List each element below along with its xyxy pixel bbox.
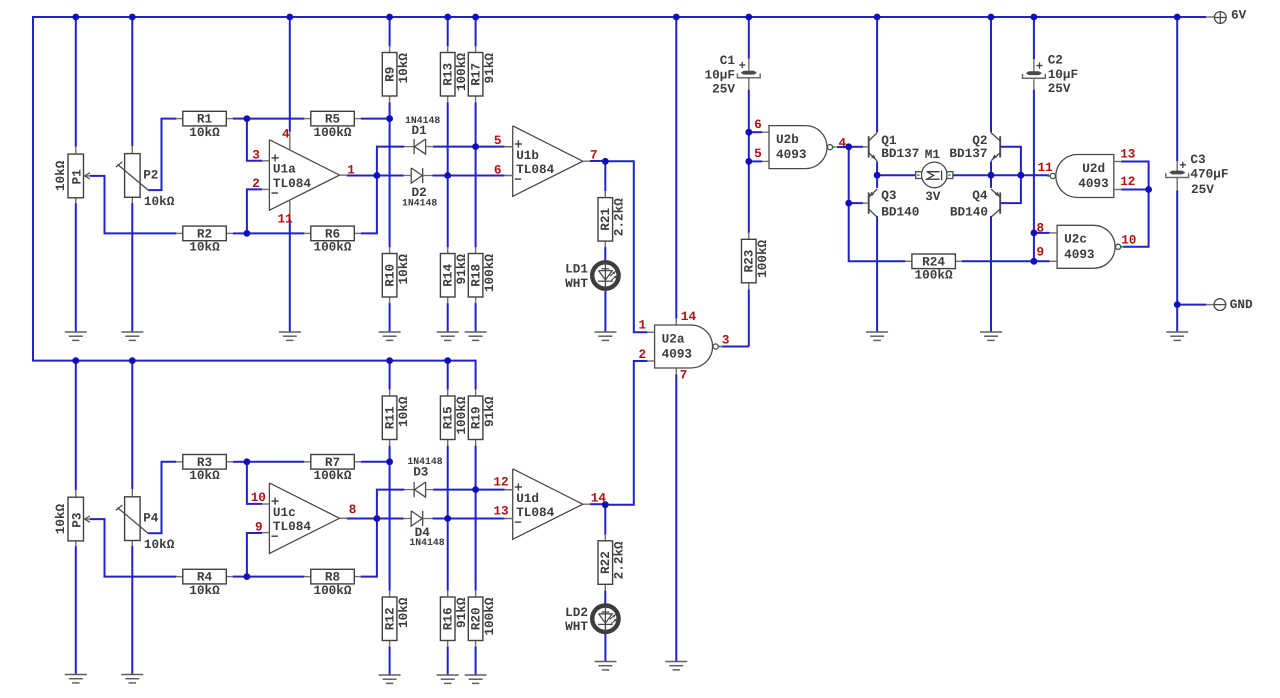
wire P3 wiper to R4 bbox=[90, 519, 176, 577]
wire P3 bottom bbox=[75, 546, 77, 674]
svg-text:10kΩ: 10kΩ bbox=[144, 194, 175, 209]
resistor R14 bbox=[447, 247, 449, 254]
svg-text:91kΩ: 91kΩ bbox=[454, 254, 469, 285]
resistor R19 bbox=[475, 390, 477, 397]
transistor Q1 BD137 bbox=[868, 136, 870, 157]
ground R10 bbox=[379, 331, 401, 333]
wire R16 to ground bbox=[447, 647, 449, 675]
U2a pin1 stub bbox=[647, 331, 654, 333]
wire pin6 stub bbox=[749, 131, 762, 133]
junction base tie right bbox=[1018, 172, 1025, 179]
wire R14 to ground bbox=[447, 303, 449, 332]
svg-text:U1d: U1d bbox=[516, 491, 539, 506]
wire R21 to LD1 bbox=[604, 247, 606, 261]
resistor R10 bbox=[389, 247, 391, 254]
junction pin12/R19 line bbox=[472, 486, 479, 493]
node D junction bbox=[244, 458, 251, 465]
op-amp U1d bbox=[513, 469, 583, 540]
svg-text:25V: 25V bbox=[1048, 81, 1071, 96]
svg-text:2.2kΩ: 2.2kΩ bbox=[612, 541, 627, 579]
transistor Q4 BD140 bbox=[999, 192, 1001, 213]
svg-text:BD137: BD137 bbox=[949, 146, 987, 161]
wire down to R24 bbox=[849, 203, 906, 261]
U2c pin8 stub bbox=[1034, 232, 1050, 234]
wire motor node to Q3 emitter bbox=[876, 175, 878, 188]
junction U1b out bbox=[602, 158, 609, 165]
wire D2 to pin6 node bbox=[432, 175, 447, 177]
wire pin6 into U1b bbox=[448, 175, 505, 177]
wire Q4 base elbow bbox=[1001, 175, 1021, 203]
diode D4 1N4148 bbox=[404, 518, 412, 520]
wire R10 to ground bbox=[389, 303, 391, 332]
wire +6V top rail bbox=[33, 16, 1206, 18]
svg-text:P2: P2 bbox=[143, 167, 158, 182]
wire D1 to pin5 node bbox=[433, 146, 475, 148]
svg-text:91kΩ: 91kΩ bbox=[454, 597, 469, 628]
junction R5/R9 bbox=[386, 115, 393, 122]
svg-text:TL084: TL084 bbox=[516, 162, 554, 177]
svg-text:25V: 25V bbox=[712, 82, 735, 97]
svg-text:LD1: LD1 bbox=[565, 262, 588, 277]
potentiometer P4 bbox=[131, 361, 133, 490]
resistor R13 bbox=[447, 46, 449, 53]
wire base tie vertical bbox=[848, 147, 850, 203]
wire R7 to R11 line bbox=[361, 461, 390, 463]
resistor R16 bbox=[447, 591, 449, 598]
junction pin6/R13 line bbox=[444, 172, 451, 179]
wire Q1 base bbox=[849, 146, 863, 148]
svg-text:D1: D1 bbox=[412, 123, 428, 138]
svg-text:100kΩ: 100kΩ bbox=[313, 583, 351, 598]
resistor R4 bbox=[176, 576, 183, 578]
svg-text:5: 5 bbox=[494, 133, 502, 148]
junction U2b pin6 bbox=[745, 129, 752, 136]
svg-text:LD2: LD2 bbox=[565, 605, 588, 620]
NAND gate U2b 4093 bbox=[769, 126, 827, 169]
junction rail U2a pin14 bbox=[673, 14, 680, 21]
LED LD1 bbox=[592, 262, 618, 288]
wire node E up to pin9 bbox=[247, 533, 262, 577]
ground Q4 bbox=[980, 331, 1002, 333]
U2d pin12 stub and wire bbox=[1114, 189, 1122, 191]
junction lower rail R11 bbox=[386, 357, 393, 364]
wire U1a output to node C bbox=[347, 175, 377, 177]
svg-text:WHT: WHT bbox=[565, 276, 588, 291]
svg-text:10kΩ: 10kΩ bbox=[53, 160, 68, 191]
wire P4 bottom bbox=[131, 546, 133, 675]
wire Q4 emitter from motor node bbox=[990, 175, 992, 188]
wire node A down to pin3 bbox=[247, 119, 262, 161]
wire C2 down to U2c bbox=[1033, 90, 1035, 262]
junction Q3 base bbox=[845, 200, 852, 207]
svg-text:4: 4 bbox=[282, 127, 290, 142]
svg-text:2.2kΩ: 2.2kΩ bbox=[612, 198, 627, 236]
ground R14 bbox=[437, 331, 459, 333]
svg-text:100kΩ: 100kΩ bbox=[454, 53, 469, 91]
svg-text:C1: C1 bbox=[720, 53, 736, 68]
diode D1 1N4148 bbox=[404, 146, 414, 148]
pin 4 power stub U1a bbox=[289, 17, 291, 132]
resistor R21 bbox=[604, 161, 606, 191]
wire C1 to U2b inputs bbox=[748, 90, 750, 162]
junction rail R9 bbox=[386, 14, 393, 21]
junction rail R13 bbox=[444, 14, 451, 21]
svg-text:1N4148: 1N4148 bbox=[402, 198, 437, 209]
wire U1b out to U2a pin1 bbox=[605, 161, 647, 332]
svg-text:C3: C3 bbox=[1190, 152, 1205, 167]
wire R1 to node A bbox=[233, 118, 247, 120]
ground Q3 bbox=[866, 331, 888, 333]
wire R18 to ground bbox=[475, 303, 477, 332]
ground U2a pin7 bbox=[665, 661, 687, 663]
svg-text:9: 9 bbox=[255, 519, 263, 534]
svg-text:BD140: BD140 bbox=[881, 204, 919, 219]
svg-text:6: 6 bbox=[754, 117, 762, 132]
resistor R1 bbox=[176, 118, 183, 120]
ground R18 bbox=[465, 331, 487, 333]
wire Q1 collector from rail bbox=[876, 17, 878, 132]
svg-text:25V: 25V bbox=[1191, 182, 1214, 197]
svg-text:6V: 6V bbox=[1231, 7, 1247, 22]
resistor R8 bbox=[304, 576, 311, 578]
junction lower rail P3 bbox=[72, 357, 79, 364]
U2a pin7 stub to ground bbox=[675, 368, 677, 375]
wire U2a output to R23 bbox=[722, 346, 749, 348]
wire node E to R8 bbox=[247, 576, 304, 578]
svg-text:11: 11 bbox=[278, 212, 294, 227]
ground C3 bbox=[1166, 331, 1188, 333]
svg-text:10kΩ: 10kΩ bbox=[189, 240, 220, 255]
wire R24 to C2/U2c node bbox=[962, 260, 1034, 262]
wire R9-R10 bbox=[389, 103, 391, 248]
node E junction bbox=[244, 573, 251, 580]
svg-text:WHT: WHT bbox=[565, 619, 588, 634]
wire Q3 base bbox=[849, 202, 863, 204]
wire node D to R7 bbox=[247, 461, 304, 463]
resistor R11 bbox=[389, 390, 391, 397]
resistor R5 bbox=[304, 118, 311, 120]
svg-text:4093: 4093 bbox=[776, 147, 806, 162]
svg-text:BD137: BD137 bbox=[881, 146, 919, 161]
svg-text:14: 14 bbox=[681, 309, 697, 324]
resistor R12 bbox=[389, 591, 391, 598]
junction U2d pin12 node bbox=[1145, 186, 1152, 193]
potentiometer P3 bbox=[75, 361, 77, 490]
svg-text:6: 6 bbox=[494, 163, 502, 178]
svg-text:3V: 3V bbox=[925, 189, 941, 204]
svg-text:100kΩ: 100kΩ bbox=[313, 240, 351, 255]
diode D2 1N4148 bbox=[404, 175, 412, 177]
NAND gate U2d 4093 mirrored bbox=[1056, 155, 1114, 198]
svg-text:11: 11 bbox=[1038, 160, 1054, 175]
svg-text:2: 2 bbox=[639, 347, 647, 362]
wire motor node to U2d out bbox=[991, 174, 1049, 176]
junction R7/R11 bbox=[386, 458, 393, 465]
wire pin5 stub bbox=[749, 160, 762, 162]
ground LD2 bbox=[594, 661, 616, 663]
ground P1 bbox=[65, 331, 87, 333]
junction rail C2 bbox=[1031, 14, 1038, 21]
junction rail Q2 bbox=[988, 14, 995, 21]
junction U2b out / Q1 base bbox=[845, 143, 852, 150]
svg-text:10kΩ: 10kΩ bbox=[144, 537, 175, 552]
junction lower rail R15 bbox=[444, 357, 451, 364]
ground flag GND bbox=[1177, 304, 1206, 306]
ground R16 bbox=[437, 674, 459, 676]
ground U1a pin11 bbox=[279, 331, 301, 333]
resistor R20 bbox=[475, 591, 477, 598]
wire C3 to GND node bbox=[1176, 190, 1178, 304]
svg-text:Q3: Q3 bbox=[881, 188, 896, 203]
wire Q2 emitter to motor node bbox=[990, 161, 992, 175]
wire R12 to ground bbox=[389, 647, 391, 675]
svg-text:TL084: TL084 bbox=[516, 505, 554, 520]
wire pin12 into U1d bbox=[476, 489, 505, 491]
junction motor right bbox=[988, 172, 995, 179]
svg-text:D3: D3 bbox=[413, 465, 428, 480]
wire U2b output to Q1 base node bbox=[837, 146, 849, 148]
svg-text:10kΩ: 10kΩ bbox=[53, 503, 68, 534]
wire D3 to pin12 node bbox=[433, 489, 475, 491]
svg-text:10: 10 bbox=[1121, 232, 1136, 247]
wire D4 to pin13 node bbox=[432, 518, 447, 520]
node B junction bbox=[244, 230, 251, 237]
NAND gate U2c 4093 bbox=[1057, 225, 1115, 268]
pin 11 power stub U1a bbox=[289, 200, 291, 219]
wire lower rail bbox=[32, 360, 476, 362]
wire motor right bbox=[953, 174, 990, 176]
svg-text:1N4148: 1N4148 bbox=[409, 537, 444, 548]
junction rail U1a pin4 bbox=[286, 14, 293, 21]
wire R5 to R9 line bbox=[361, 118, 390, 120]
resistor R18 bbox=[475, 247, 477, 254]
capacitor C3 470uF bbox=[1176, 17, 1178, 161]
node C junction 4-way bbox=[374, 172, 381, 179]
capacitor C2 10uF bbox=[1033, 17, 1035, 59]
svg-text:470µF: 470µF bbox=[1190, 166, 1228, 181]
svg-text:10kΩ: 10kΩ bbox=[396, 53, 411, 84]
potentiometer P1 bbox=[75, 17, 77, 147]
svg-text:U1a: U1a bbox=[273, 162, 296, 177]
wire P1 bottom bbox=[75, 203, 77, 332]
resistor R7 bbox=[304, 461, 311, 463]
wire node A to R5 bbox=[247, 118, 304, 120]
wire R20 to ground bbox=[475, 647, 477, 675]
transistor Q2 BD137 bbox=[999, 136, 1001, 157]
wire R6 feedback to pin6 node bbox=[361, 176, 377, 234]
wire R2 to node B bbox=[233, 232, 247, 234]
potentiometer P2 bbox=[131, 17, 133, 146]
wire R8 feedback to pin13 node bbox=[361, 519, 377, 577]
wire C3 to ground bbox=[1176, 305, 1178, 332]
wire Q4 collector to ground bbox=[990, 216, 992, 332]
wire LD2 to ground bbox=[604, 634, 606, 662]
capacitor C1 10uF bbox=[748, 17, 750, 59]
ground R20 bbox=[465, 674, 487, 676]
wire node C to D2 bbox=[377, 175, 404, 177]
wire P2 rheostat to R1 bbox=[148, 119, 176, 191]
svg-text:10µF: 10µF bbox=[705, 67, 735, 82]
junction pin13/R15 line bbox=[444, 515, 451, 522]
svg-text:100kΩ: 100kΩ bbox=[482, 254, 497, 292]
junction rail R17 bbox=[472, 14, 479, 21]
power flag 6V bbox=[1206, 16, 1214, 18]
junction rail C1 bbox=[745, 14, 752, 21]
svg-text:12: 12 bbox=[1120, 174, 1135, 189]
junction U2b pin5 bbox=[745, 158, 752, 165]
wire R15-R16 bbox=[447, 446, 449, 591]
junction lower rail P4 bbox=[129, 357, 136, 364]
junction pin5/R17 line bbox=[472, 143, 479, 150]
motor M1 3V bbox=[877, 174, 916, 176]
wire U2a pin2 to U1d output bbox=[605, 361, 647, 505]
svg-text:100kΩ: 100kΩ bbox=[313, 468, 351, 483]
svg-text:4093: 4093 bbox=[662, 347, 692, 362]
svg-text:100kΩ: 100kΩ bbox=[313, 125, 351, 140]
wire pin5 into U1b bbox=[476, 146, 505, 148]
svg-text:10kΩ: 10kΩ bbox=[189, 468, 220, 483]
svg-text:3: 3 bbox=[722, 332, 730, 347]
wire R17-R18 bbox=[475, 103, 477, 248]
node F junction 4-way bbox=[374, 515, 381, 522]
ground LD1 bbox=[594, 331, 616, 333]
wire node F to D4 bbox=[377, 518, 404, 520]
svg-text:10: 10 bbox=[251, 490, 266, 505]
U2a pin2 stub bbox=[647, 360, 654, 362]
resistor R23 bbox=[748, 161, 750, 232]
wire R4 to node E bbox=[233, 576, 247, 578]
vertical R9/R10 line bbox=[389, 17, 391, 46]
wire R11-R12 bbox=[389, 446, 391, 591]
svg-text:10µF: 10µF bbox=[1048, 67, 1078, 82]
svg-text:5: 5 bbox=[754, 146, 762, 161]
wire node D down to pin10 bbox=[247, 462, 262, 504]
junction U2c pin8 bbox=[1031, 230, 1038, 237]
svg-text:GND: GND bbox=[1230, 297, 1253, 312]
resistor R24 bbox=[905, 260, 912, 262]
svg-text:4093: 4093 bbox=[1064, 247, 1094, 262]
svg-text:U2b: U2b bbox=[776, 132, 799, 147]
svg-text:12: 12 bbox=[493, 475, 508, 490]
svg-text:91kΩ: 91kΩ bbox=[482, 396, 497, 427]
ground P4 bbox=[121, 674, 143, 676]
svg-text:P4: P4 bbox=[143, 511, 159, 526]
wire R3 to node D bbox=[233, 461, 247, 463]
svg-text:100kΩ: 100kΩ bbox=[454, 396, 469, 434]
wire Q3 collector to ground bbox=[876, 216, 878, 332]
wire U2c out up to U2d node bbox=[1124, 190, 1149, 247]
junction rail P1 bbox=[72, 14, 79, 21]
LED LD2 bbox=[592, 606, 618, 632]
wire U2a pin14 from rail bbox=[675, 17, 677, 319]
svg-text:10kΩ: 10kΩ bbox=[189, 583, 220, 598]
svg-text:C2: C2 bbox=[1048, 53, 1063, 68]
svg-text:3: 3 bbox=[252, 147, 260, 162]
wire node C up to D1 line bbox=[377, 147, 405, 176]
svg-text:TL084: TL084 bbox=[273, 176, 311, 191]
junction rail C3 bbox=[1174, 14, 1181, 21]
U2c pin9 stub bbox=[1034, 260, 1050, 262]
svg-text:4: 4 bbox=[839, 136, 847, 151]
ground P2 bbox=[121, 331, 143, 333]
vertical R17/R18 line bbox=[475, 17, 477, 46]
svg-text:Q4: Q4 bbox=[972, 188, 988, 203]
wire node B up to pin2 bbox=[247, 189, 262, 233]
resistor R22 bbox=[604, 505, 606, 535]
svg-text:TL084: TL084 bbox=[273, 519, 311, 534]
ground R12 bbox=[379, 674, 401, 676]
svg-text:100kΩ: 100kΩ bbox=[755, 239, 770, 277]
wire R13-R14 bbox=[447, 103, 449, 248]
wire left vertical bus bbox=[32, 16, 34, 361]
svg-text:91kΩ: 91kΩ bbox=[482, 53, 497, 84]
svg-text:U1c: U1c bbox=[273, 505, 296, 520]
svg-text:U1b: U1b bbox=[516, 148, 539, 163]
svg-text:BD140: BD140 bbox=[950, 204, 988, 219]
vertical R13/R14 line bbox=[447, 17, 449, 46]
svg-text:13: 13 bbox=[493, 503, 508, 518]
wire pin13 into U1d bbox=[448, 518, 505, 520]
wire node F up to D3 line bbox=[377, 490, 405, 519]
junction rail Q1 bbox=[874, 14, 881, 21]
svg-text:7: 7 bbox=[680, 368, 688, 383]
wire R19-R20 bbox=[475, 446, 477, 591]
resistor R15 bbox=[447, 361, 449, 390]
wire R22 to LD2 bbox=[604, 591, 606, 605]
wire node B to R6 bbox=[247, 232, 304, 234]
junction GND node bbox=[1174, 301, 1181, 308]
wire Q2 collector from rail bbox=[990, 17, 992, 132]
svg-text:P1: P1 bbox=[69, 169, 84, 185]
svg-text:10kΩ: 10kΩ bbox=[396, 396, 411, 427]
U2d pin13 stub and wire bbox=[1114, 161, 1122, 163]
resistor R3 bbox=[176, 461, 183, 463]
wire P1 wiper to R2 bbox=[90, 176, 176, 234]
svg-text:100kΩ: 100kΩ bbox=[915, 268, 953, 283]
wire LD1 to ground bbox=[604, 291, 606, 332]
op-amp U1c bbox=[269, 483, 339, 554]
junction U1d out bbox=[602, 501, 609, 508]
svg-text:10kΩ: 10kΩ bbox=[396, 254, 411, 285]
NAND gate U2a 4093 bbox=[655, 325, 713, 368]
wire Q1 emitter to motor node bbox=[876, 161, 878, 175]
wire U1c output to node F bbox=[347, 518, 377, 520]
wire lower rail corner to R19 bbox=[475, 360, 477, 390]
wire P4 rheostat to R3 bbox=[148, 462, 176, 534]
op-amp U1a bbox=[269, 140, 339, 211]
junction rail P2 bbox=[129, 14, 136, 21]
svg-text:9: 9 bbox=[1037, 245, 1045, 260]
node A junction bbox=[244, 115, 251, 122]
resistor R17 bbox=[475, 46, 477, 53]
svg-text:100kΩ: 100kΩ bbox=[482, 597, 497, 635]
op-amp U1b bbox=[513, 126, 583, 197]
svg-text:U2a: U2a bbox=[662, 331, 685, 346]
svg-text:U2d: U2d bbox=[1082, 161, 1105, 176]
junction U2c pin9 / R24 bbox=[1031, 258, 1038, 265]
svg-text:8: 8 bbox=[349, 502, 357, 517]
svg-text:1: 1 bbox=[639, 318, 647, 333]
vertical R11/R12 line bbox=[389, 361, 391, 390]
wire Q2 base elbow bbox=[1001, 147, 1021, 175]
transistor Q3 BD140 bbox=[868, 192, 870, 213]
svg-text:10kΩ: 10kΩ bbox=[396, 597, 411, 628]
wire P2 bottom bbox=[131, 203, 133, 332]
svg-text:4093: 4093 bbox=[1078, 176, 1108, 191]
svg-text:M1: M1 bbox=[925, 147, 941, 162]
svg-text:13: 13 bbox=[1120, 147, 1135, 162]
junction motor left bbox=[874, 172, 881, 179]
